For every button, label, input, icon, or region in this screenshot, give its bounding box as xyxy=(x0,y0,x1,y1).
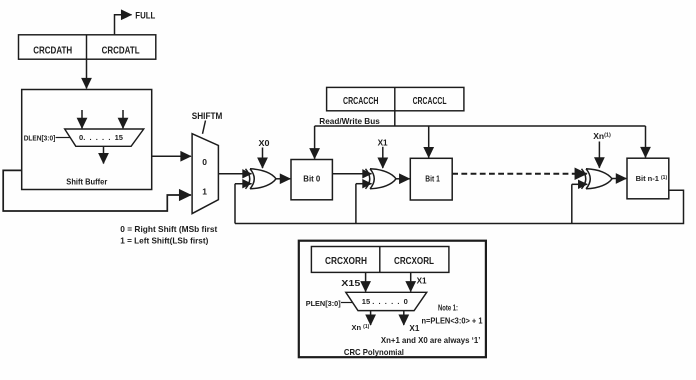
wire polynomial mux output Xn xyxy=(370,311,372,325)
svg-text:Note 1:: Note 1: xyxy=(438,304,458,313)
flip-flop Bit 0 box xyxy=(291,160,332,200)
mux trapezoid inside Shift Buffer xyxy=(65,129,144,146)
wire PLEN to trapezoid xyxy=(341,302,353,304)
wire CRCACC divider to bus xyxy=(394,111,396,126)
wire feedback into XOR2 lower input xyxy=(356,183,372,185)
wire XOR3 feedback vertical xyxy=(571,184,573,223)
svg-text:Xn (1): Xn (1) xyxy=(352,323,370,332)
svg-text:CRCACCL: CRCACCL xyxy=(413,96,447,107)
wire Xn into XOR3 top xyxy=(598,142,600,168)
flip-flop Bit 1 box xyxy=(410,158,452,200)
wire Shift Buffer to mux input 0 xyxy=(152,155,191,157)
polynomial mux trapezoid xyxy=(346,292,427,310)
wire Bit 0 output to XOR2 xyxy=(332,173,371,175)
wire X0 into XOR1 top xyxy=(262,148,264,169)
wire X1 into XOR2 top xyxy=(382,147,384,168)
Shift Buffer box xyxy=(22,90,152,190)
wire bus to Bit 0 xyxy=(314,126,316,159)
svg-text:SHIFTM: SHIFTM xyxy=(192,111,223,121)
svg-text:CRCACCH: CRCACCH xyxy=(343,96,379,107)
wire CRCDAT to Shift Buffer xyxy=(86,59,88,88)
svg-text:DLEN[3:0]: DLEN[3:0] xyxy=(24,135,56,142)
wire XOR1 feedback vertical xyxy=(234,184,236,224)
svg-text:Xn(1): Xn(1) xyxy=(593,131,611,141)
svg-text:CRCXORH: CRCXORH xyxy=(325,256,367,267)
svg-text:CRCDATL: CRCDATL xyxy=(102,45,140,56)
svg-text:X15: X15 xyxy=(341,279,361,288)
wire arrow into trapezoid right xyxy=(122,110,124,128)
svg-text:CRCDATH: CRCDATH xyxy=(33,45,72,56)
wire CRCXORH to polynomial mux xyxy=(365,272,367,291)
wire mux output to XOR gate 1 xyxy=(218,173,251,175)
wire XOR1 output to Bit 0 xyxy=(276,178,290,180)
wire SHIFTM to mux xyxy=(203,121,206,134)
wire bus to Bit 1 xyxy=(428,126,430,158)
register CRCACCH/CRCACCL box xyxy=(327,87,464,110)
register CRCXORH/CRCXORL box xyxy=(311,247,449,273)
wire XOR3 output to Bit n-1 xyxy=(612,178,626,180)
svg-text:Bit 0: Bit 0 xyxy=(303,174,320,184)
svg-text:Read/Write Bus: Read/Write Bus xyxy=(319,116,380,126)
svg-text:0 = Right Shift (MSb first: 0 = Right Shift (MSb first xyxy=(120,224,217,234)
wire XOR2 output to Bit 1 xyxy=(396,178,410,180)
wire feedback into XOR3 lower input xyxy=(572,183,587,185)
wire arrow out of trapezoid xyxy=(103,146,105,163)
svg-text:CRC Polynomial: CRC Polynomial xyxy=(344,347,404,357)
CRC Polynomial outer box xyxy=(299,241,486,358)
svg-text:X1: X1 xyxy=(409,324,420,333)
xor gate U2 xyxy=(366,169,397,189)
svg-text:X1: X1 xyxy=(417,277,428,286)
wire XOR2 feedback vertical xyxy=(355,184,357,224)
mux SHIFTM trapezoid xyxy=(192,134,218,214)
svg-text:PLEN[3:0]: PLEN[3:0] xyxy=(306,299,341,308)
wire polynomial mux output X1 xyxy=(403,311,405,325)
svg-text:FULL: FULL xyxy=(135,10,155,21)
svg-text:Bit n-1 (1): Bit n-1 (1) xyxy=(636,174,668,183)
xor gate U3 xyxy=(582,169,613,189)
wire DLEN to trapezoid xyxy=(56,137,71,139)
svg-text:n=PLEN<3:0> + 1: n=PLEN<3:0> + 1 xyxy=(422,316,484,325)
wire CRCXORL to polynomial mux xyxy=(410,272,412,291)
svg-text:Xn+1 and X0 are always ‘1’: Xn+1 and X0 are always ‘1’ xyxy=(381,336,481,345)
wire FULL flag xyxy=(115,15,132,35)
wire feedback into XOR1 lower input xyxy=(235,183,252,185)
flip-flop Bit n-1 box xyxy=(627,158,669,199)
wire dashed Bit 1 to XOR3 xyxy=(452,173,587,175)
wire Bit n-1 output feedback to bottom rail xyxy=(235,190,684,223)
register CRCDATH/CRCDATL box xyxy=(19,35,156,59)
svg-text:CRCXORL: CRCXORL xyxy=(394,256,434,267)
svg-text:1 = Left Shift(LSb first): 1 = Left Shift(LSb first) xyxy=(120,235,208,245)
svg-text:15 . . . . . 0: 15 . . . . . 0 xyxy=(362,299,408,306)
wire Read/Write bus horizontal xyxy=(315,125,646,127)
wire arrow into trapezoid left xyxy=(81,110,83,128)
svg-text:X1: X1 xyxy=(378,138,388,148)
svg-text:Shift Buffer: Shift Buffer xyxy=(66,177,108,187)
svg-text:1: 1 xyxy=(202,187,207,197)
xor gate U1 xyxy=(246,169,277,189)
svg-text:Bit 1: Bit 1 xyxy=(425,173,440,183)
svg-text:0. . . . . 15: 0. . . . . 15 xyxy=(79,135,123,142)
svg-text:X0: X0 xyxy=(259,138,270,148)
svg-text:0: 0 xyxy=(202,157,207,167)
wire bus to Bit n-1 xyxy=(645,126,647,157)
wire Shift Buffer feedback to mux input 1 xyxy=(3,170,191,211)
